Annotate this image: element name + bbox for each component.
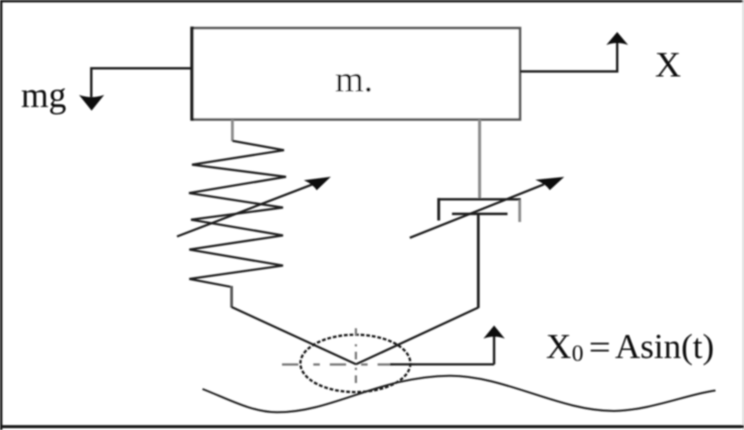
arrowhead X up bbox=[606, 32, 628, 45]
wire damper to wheel bbox=[356, 308, 478, 365]
wire spring to wheel bbox=[232, 307, 356, 364]
spring bottom stub bbox=[230, 286, 233, 308]
damper cylinder cap bbox=[438, 198, 521, 200]
damper cylinder right wall bbox=[518, 200, 521, 222]
wire mg arrow horizontal bbox=[91, 68, 191, 97]
svg-text:0: 0 bbox=[572, 341, 584, 367]
spring top stub bbox=[231, 120, 234, 142]
X0 arrow shaft bbox=[493, 336, 495, 364]
svg-text:=: = bbox=[589, 328, 611, 367]
damper cylinder left wall bbox=[437, 198, 440, 221]
svg-text:X: X bbox=[655, 45, 681, 85]
spring K zigzag bbox=[189, 141, 286, 287]
svg-text:m.: m. bbox=[335, 60, 373, 101]
damper piston bbox=[452, 213, 508, 216]
arrowhead X0 up bbox=[483, 326, 504, 339]
mass block m bbox=[192, 28, 520, 119]
damper rod upper bbox=[478, 120, 481, 200]
mass block left edge bbox=[190, 27, 193, 121]
arrowhead mg down bbox=[79, 95, 104, 111]
variable-spring arrowhead bbox=[304, 177, 331, 191]
wire wheel to X0 arrow bbox=[390, 363, 494, 365]
frame right border bbox=[742, 0, 744, 430]
variable-damper arrowhead bbox=[535, 177, 564, 190]
frame bottom border bbox=[0, 425, 744, 428]
svg-text:mg: mg bbox=[21, 75, 67, 115]
wheel centerline horizontal bbox=[282, 363, 418, 365]
wheel ellipse bbox=[300, 335, 410, 392]
frame top border bbox=[0, 0, 744, 2]
ground wave bbox=[203, 376, 716, 413]
wheel centerline vertical bbox=[355, 328, 357, 388]
damper rod lower bbox=[477, 214, 480, 308]
variable-spring arrow shaft bbox=[177, 184, 313, 236]
wire X arrow horizontal bbox=[520, 42, 617, 71]
variable-damper arrow shaft bbox=[410, 184, 544, 238]
svg-text:Asin(t): Asin(t) bbox=[615, 327, 714, 366]
svg-text:X: X bbox=[546, 327, 571, 366]
frame left border bbox=[0, 0, 2, 430]
